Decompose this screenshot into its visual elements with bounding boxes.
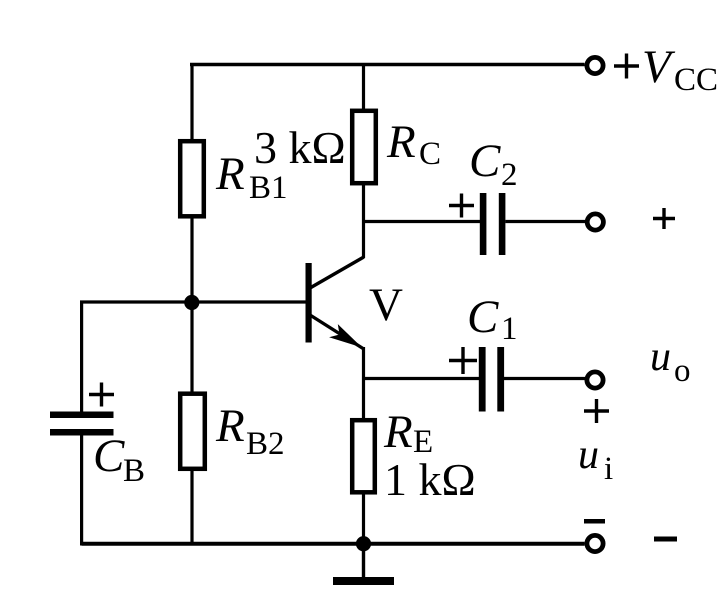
svg-text:1 kΩ: 1 kΩ <box>384 454 476 505</box>
svg-text:B1: B1 <box>249 170 288 206</box>
svg-text:V: V <box>369 279 403 331</box>
wire collector branch to C2 <box>364 220 481 223</box>
node B junction dot <box>184 295 199 310</box>
wire top rail +Vcc <box>190 63 585 67</box>
transistor V emitter diagonal <box>310 315 364 349</box>
wire RB2 top stem <box>190 302 193 393</box>
svg-text:i: i <box>604 451 613 487</box>
capacitor C2 plate left <box>480 193 487 255</box>
wire ground stem <box>362 544 365 577</box>
resistor RB1 <box>180 141 204 216</box>
plus sign of +Vcc <box>614 54 639 79</box>
capacitor CB plate top <box>50 412 114 419</box>
svg-text:C: C <box>93 430 125 482</box>
capacitor CB plate bottom <box>50 429 114 436</box>
wire RC bottom to collector <box>362 183 365 258</box>
svg-text:B: B <box>123 453 145 489</box>
wire emitter vertical <box>362 347 365 420</box>
transistor V collector diagonal <box>310 257 364 288</box>
wire bottom rail <box>82 542 585 546</box>
ground <box>333 577 394 585</box>
svg-text:CC: CC <box>674 62 718 98</box>
svg-text:R: R <box>215 148 245 200</box>
svg-text:R: R <box>383 406 413 458</box>
svg-text:C: C <box>419 136 441 172</box>
node E junction dot <box>356 536 371 551</box>
svg-text:2: 2 <box>501 157 518 193</box>
resistor RE <box>352 420 375 492</box>
terminal C2 output <box>587 214 603 230</box>
svg-text:u: u <box>650 334 671 380</box>
terminal Vcc <box>587 57 603 73</box>
resistor RB2 <box>180 394 205 469</box>
terminal C1 output <box>587 372 603 388</box>
plus sign right of C2 terminal <box>653 208 675 229</box>
wire RB1 top stem <box>190 63 193 140</box>
wire C2 to output terminal <box>505 220 585 223</box>
wire RB2 bottom stem <box>190 469 193 546</box>
transistor V emitter arrowhead <box>329 324 362 347</box>
transistor V base bar <box>306 263 312 343</box>
plus sign at C1 <box>449 347 477 374</box>
capacitor C2 plate right <box>499 193 506 255</box>
plus sign below C1 terminal <box>584 399 609 423</box>
svg-text:C: C <box>467 291 499 343</box>
svg-text:3 kΩ: 3 kΩ <box>254 122 346 173</box>
svg-text:u: u <box>578 432 599 478</box>
svg-text:C: C <box>469 135 501 187</box>
svg-text:B2: B2 <box>246 426 285 462</box>
terminal bottom <box>587 535 603 551</box>
wire C1 to output terminal <box>504 377 585 380</box>
svg-text:R: R <box>215 400 245 452</box>
wire emitter branch to C1 <box>364 377 481 380</box>
wire RE bottom stem <box>362 492 365 544</box>
wire RC top stem <box>362 63 365 110</box>
svg-text:o: o <box>674 353 691 389</box>
plus sign of CB <box>89 383 114 407</box>
minus bar above bottom terminal <box>584 519 605 524</box>
svg-text:R: R <box>386 116 416 168</box>
capacitor C1 plate right <box>497 347 504 412</box>
wire left branch upper (to CB) <box>80 302 83 412</box>
wire left branch lower (CB to bottom rail) <box>80 435 83 546</box>
minus sign right of bottom terminal <box>654 537 677 542</box>
wire base horizontal <box>80 300 306 303</box>
capacitor C1 plate left <box>479 347 486 412</box>
wire RB1 bottom stem <box>190 217 193 303</box>
plus sign at C2 <box>449 194 474 218</box>
svg-text:1: 1 <box>501 311 518 347</box>
resistor RC <box>352 111 376 183</box>
